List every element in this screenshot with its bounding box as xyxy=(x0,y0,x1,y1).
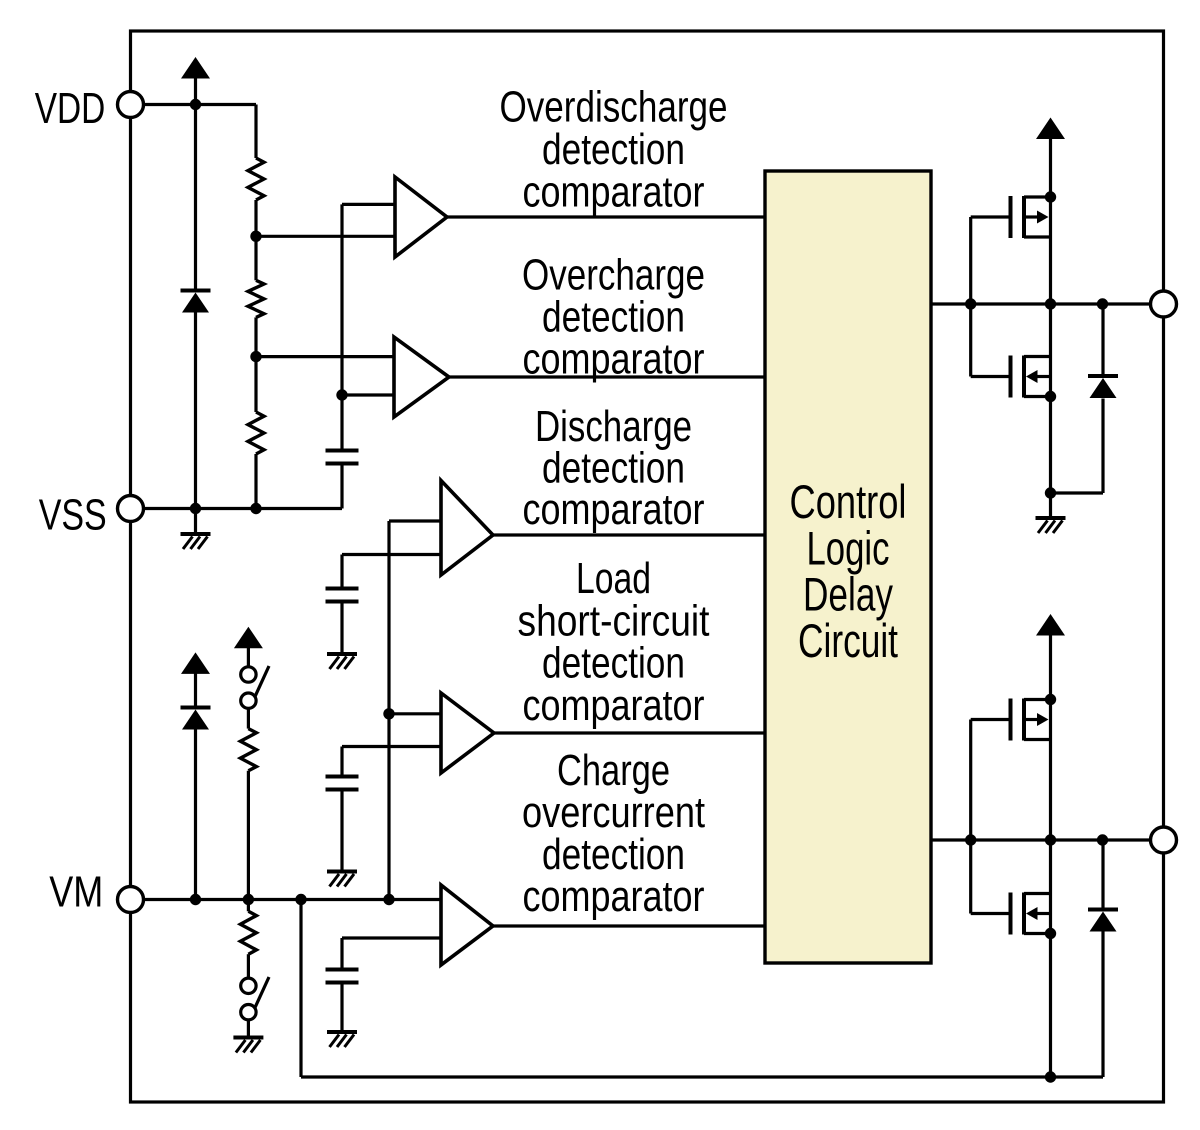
power arrow above S1 xyxy=(234,627,263,649)
svg-text:comparator: comparator xyxy=(523,485,705,534)
wire Q2 source down xyxy=(1049,304,1052,493)
wire tap2 down xyxy=(254,357,257,412)
wire comparator 3 output xyxy=(493,533,765,536)
wire comparator 3 plus input xyxy=(389,519,441,522)
wire R1 to tap1 xyxy=(254,200,257,236)
power arrow VDD Q1 xyxy=(1036,118,1065,140)
wire VDD pin to resistor ladder xyxy=(144,103,256,106)
diode D4 xyxy=(1101,840,1104,910)
pin VM xyxy=(118,887,144,913)
wire VM to R5 xyxy=(247,900,250,912)
wire Q4 source down xyxy=(1049,840,1052,1077)
wire VSS rail xyxy=(144,507,342,510)
svg-text:comparator: comparator xyxy=(523,872,705,921)
wire VDD down to diode D1 xyxy=(194,105,197,291)
transistor Q1 xyxy=(1009,196,1013,238)
wire tap1 down xyxy=(254,236,257,280)
capacitor C4 xyxy=(340,938,343,970)
wire comparator 5 minus input xyxy=(342,936,441,939)
wire gate Q4 xyxy=(969,840,972,914)
wire R4 to VM xyxy=(247,771,250,900)
svg-text:Circuit: Circuit xyxy=(798,614,898,667)
junction VM-diode chain xyxy=(190,894,201,905)
diode D1 xyxy=(181,289,211,293)
op-amp comparator 1 overdischarge xyxy=(395,177,447,257)
wire comparator 5 output xyxy=(493,924,765,927)
power arrow VDD top-left xyxy=(181,57,210,79)
diode D3 xyxy=(1101,304,1104,376)
switch S1 xyxy=(241,667,256,682)
power arrow above D2 xyxy=(181,652,210,674)
wire comparator 2 output xyxy=(449,375,765,378)
op-amp comparator 2 overcharge xyxy=(394,337,449,417)
ground below Q2 xyxy=(1049,493,1052,517)
ground below C2 xyxy=(340,602,343,654)
wire tap2 to comparator 2 xyxy=(256,355,394,358)
junction reference-comp2 xyxy=(336,389,347,400)
op-amp comparator 3 discharge xyxy=(441,481,493,576)
wire VM rail xyxy=(144,898,441,901)
op-amp comparator 4 load short-circuit xyxy=(441,693,494,773)
svg-text:VSS: VSS xyxy=(39,490,107,539)
wire gate Q2 xyxy=(969,304,972,377)
svg-text:Control: Control xyxy=(790,475,907,528)
wire reference node vertical xyxy=(340,204,343,450)
junction out2 gate node xyxy=(965,834,976,845)
junction tap1 xyxy=(250,231,261,242)
junction VM-bottom wire xyxy=(295,894,306,905)
wire gate Q1 xyxy=(969,217,972,304)
svg-text:Logic: Logic xyxy=(807,521,890,574)
wire VM bottom return xyxy=(299,900,302,1078)
junction Q2 source xyxy=(1045,391,1056,402)
diode D2 xyxy=(181,706,211,710)
wire Q2-D3 link xyxy=(1051,491,1104,494)
wire comparator 2 minus input xyxy=(342,393,394,396)
resistor R3 xyxy=(248,412,264,454)
wire control output 1 xyxy=(931,302,1151,305)
capacitor C2 xyxy=(340,555,343,589)
wire control output 2 xyxy=(931,838,1151,841)
switch S2 xyxy=(241,978,256,993)
svg-text:comparator: comparator xyxy=(523,335,705,384)
transistor Q3 xyxy=(1009,699,1013,741)
junction VM-sense vertical xyxy=(383,894,394,905)
wire R2 to tap2 xyxy=(254,317,257,356)
svg-text:comparator: comparator xyxy=(523,168,705,217)
junction out1 fet node xyxy=(1045,298,1056,309)
pin VDD xyxy=(118,92,144,118)
wire tap1 to comparator 1 xyxy=(256,235,395,238)
resistor R1 xyxy=(248,158,264,200)
junction ladder-VSS xyxy=(250,503,261,514)
op-amp comparator 5 charge overcurrent xyxy=(441,885,493,965)
junction Q1 source xyxy=(1045,191,1056,202)
wire sense vertical x390 xyxy=(387,521,390,900)
svg-text:comparator: comparator xyxy=(523,681,705,730)
resistor R5 xyxy=(240,911,256,954)
svg-text:Delay: Delay xyxy=(803,568,893,621)
pin OUT2 xyxy=(1151,827,1177,853)
junction out2 fet node xyxy=(1045,834,1056,845)
wire comparator 1 output xyxy=(447,215,765,218)
ground below C4 xyxy=(340,983,343,1032)
power arrow VDD Q3 xyxy=(1036,614,1065,636)
wire comparator 4 output xyxy=(494,731,765,734)
ground below C3 xyxy=(340,790,343,871)
transistor Q2 xyxy=(1009,356,1013,398)
junction VDD node xyxy=(190,99,201,110)
junction bottom return xyxy=(1045,1071,1056,1082)
junction out1 gate node xyxy=(965,298,976,309)
wire comparator 4 minus input xyxy=(342,745,441,748)
wire comparator 3 minus input xyxy=(342,553,441,556)
junction Q3 source xyxy=(1045,694,1056,705)
pin VSS xyxy=(118,496,144,522)
ground below S2 xyxy=(247,1020,250,1037)
wire R5 to S2 xyxy=(247,954,250,978)
svg-text:VM: VM xyxy=(49,868,103,917)
wire gate Q3 xyxy=(969,720,972,841)
junction sense-comp4 xyxy=(383,708,394,719)
wire comparator 1 plus input xyxy=(342,203,395,206)
junction tap2 xyxy=(250,351,261,362)
resistor R2 xyxy=(248,280,264,317)
wire R3 to VSS line xyxy=(254,454,257,509)
junction Q2 ground node xyxy=(1045,487,1056,498)
resistor R4 xyxy=(240,729,256,771)
wire S1 to R4 xyxy=(247,708,250,728)
junction out2 diode node xyxy=(1097,834,1108,845)
transistor Q4 xyxy=(1009,893,1013,935)
junction VSS-diode node xyxy=(190,503,201,514)
junction VM-switch chain xyxy=(243,894,254,905)
junction out1 diode node xyxy=(1097,298,1108,309)
wire ladder top drop xyxy=(254,105,257,159)
control logic delay circuit block U1 xyxy=(765,171,931,963)
wire comparator 4 plus input xyxy=(389,712,441,715)
capacitor C3 xyxy=(340,747,343,777)
capacitor C1 xyxy=(326,449,359,453)
svg-text:VDD: VDD xyxy=(35,84,106,133)
pin OUT1 xyxy=(1151,291,1177,317)
junction Q4 source xyxy=(1045,928,1056,939)
ground below VSS line xyxy=(194,509,197,534)
